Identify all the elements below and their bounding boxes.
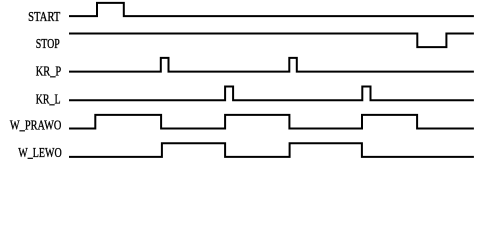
svg-text:W_LEWO: W_LEWO — [18, 146, 61, 161]
svg-text:STOP: STOP — [36, 37, 60, 52]
svg-text:KR_P: KR_P — [36, 65, 62, 80]
svg-text:START: START — [28, 10, 61, 25]
svg-text:KR_L: KR_L — [36, 92, 61, 107]
svg-text:W_PRAWO: W_PRAWO — [10, 118, 62, 133]
